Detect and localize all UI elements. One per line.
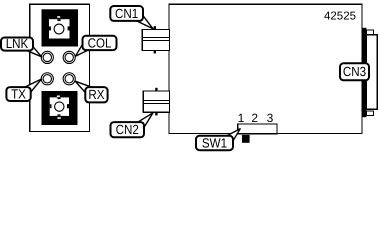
optical connector top ferrule circle [54, 24, 64, 34]
optical connector bottom lower key notch [57, 114, 60, 116]
connector CN3 shell rectangle [366, 35, 377, 109]
svg-text:2: 2 [251, 111, 258, 125]
LED LNK inner ring [43, 53, 51, 61]
connector CN2 double line lower [143, 103, 169, 105]
label CN2 [111, 122, 145, 137]
connector CN2 top tick [155, 88, 157, 91]
optical connector top inner white square [49, 19, 70, 38]
callout tail RX [75, 81, 92, 92]
callout tail TX [25, 79, 42, 92]
svg-text:RX: RX [88, 87, 104, 102]
optical connector bottom inner white square [50, 97, 69, 116]
LED COL outer ring [63, 51, 75, 63]
svg-text:CN1: CN1 [115, 6, 138, 21]
connector CN3 black bar [362, 28, 367, 117]
svg-text:CN3: CN3 [343, 64, 366, 79]
svg-text:SW1: SW1 [202, 135, 227, 150]
callout tail COL [75, 44, 88, 56]
label COL [83, 36, 117, 50]
label CN3 [340, 63, 369, 80]
optical connector top key notch [57, 19, 60, 21]
LED LNK outer ring [41, 51, 53, 63]
faceplate bracket [30, 4, 90, 131]
optical connector top (black body) [42, 9, 79, 46]
connector CN1 body [142, 30, 169, 51]
LED RX inner ring [65, 75, 73, 83]
callout tail CN1 [136, 15, 153, 28]
LED TX inner ring [43, 75, 51, 83]
label CN1 [110, 6, 143, 21]
label SW1 [196, 136, 233, 150]
svg-text:LNK: LNK [6, 36, 29, 51]
board outline [169, 4, 362, 133]
svg-text:1: 1 [238, 111, 245, 125]
callout tail LNK [26, 47, 42, 57]
optical connector bottom key notch [57, 97, 60, 99]
optical connector bottom right notch [67, 104, 69, 108]
optical connector bottom (black body) [42, 91, 78, 125]
label LNK [1, 38, 33, 51]
connector CN1 top tick [154, 26, 156, 29]
LED COL inner ring [65, 53, 73, 61]
svg-text:3: 3 [267, 111, 274, 125]
connector CN1 bottom tick [154, 51, 156, 54]
connector CN2 double line upper [143, 100, 169, 102]
svg-text:42525: 42525 [324, 11, 356, 23]
connector CN2 bottom tick [155, 112, 157, 115]
optical connector top right notch [68, 26, 70, 30]
svg-text:TX: TX [11, 87, 26, 102]
optical connector bottom white dash upper [57, 96, 60, 98]
switch SW1 body [238, 124, 277, 134]
callout tail SW1 [226, 129, 240, 141]
optical connector bottom left notch [50, 104, 52, 108]
connector CN3 top tab [366, 30, 373, 35]
connector CN3 bottom tab [366, 111, 373, 116]
connector CN1 double line lower [142, 40, 169, 42]
connector CN2 body [143, 91, 169, 112]
optical connector bottom white dash lower [57, 117, 60, 119]
LED TX outer ring [41, 73, 53, 85]
optical connector top white dash [57, 16, 60, 18]
svg-text:COL: COL [88, 35, 112, 50]
component black square below board [242, 135, 250, 143]
connector CN1 double line upper [142, 37, 169, 39]
callout tail CN2 [138, 113, 154, 128]
optical connector top left notch [49, 26, 51, 30]
label TX [6, 87, 30, 101]
LED RX outer ring [63, 73, 75, 85]
label RX [85, 87, 107, 102]
optical connector bottom ferrule circle [55, 102, 64, 111]
svg-text:CN2: CN2 [116, 122, 139, 137]
